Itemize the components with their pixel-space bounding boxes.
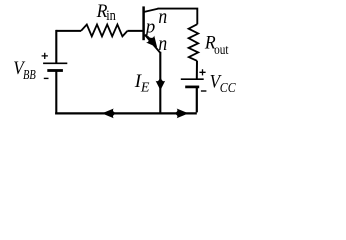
plus sign V_BB	[42, 53, 48, 59]
svg-text:p: p	[144, 16, 156, 37]
svg-text:E: E	[140, 80, 150, 95]
wire: bottom wire	[55, 112, 160, 114]
wire: left vertical from corner to battery	[55, 30, 57, 63]
svg-text:out: out	[214, 43, 228, 58]
resistor R_in	[81, 25, 127, 37]
battery V_CC long plate	[181, 78, 204, 80]
resistor R_out	[189, 24, 199, 61]
transistor collector lead	[144, 9, 158, 12]
wire: V_CC to bottom right corner	[160, 87, 197, 114]
plus sign V_CC	[199, 69, 205, 75]
minus sign V_BB	[44, 77, 49, 79]
battery V_CC short plate	[185, 86, 199, 89]
wire: resistor to transistor base	[127, 30, 143, 32]
svg-text:CC: CC	[220, 81, 236, 96]
svg-text:n: n	[158, 7, 167, 28]
transistor emitter arrowhead	[144, 33, 162, 51]
transistor Q1 base bar	[142, 6, 145, 40]
transistor emitter lead	[145, 35, 160, 53]
battery V_BB short plate	[47, 69, 63, 72]
wire: battery V_BB to bottom left corner	[55, 71, 57, 114]
wire: emitter vertical	[159, 52, 161, 115]
arrowhead bottom-right (pointing right)	[173, 109, 188, 119]
battery V_BB long plate	[43, 62, 67, 64]
svg-text:in: in	[106, 8, 116, 24]
wire: R_out to V_CC battery	[196, 61, 198, 79]
minus sign V_CC	[201, 90, 207, 92]
arrowhead bottom-left (pointing left)	[102, 109, 117, 119]
wire: collector top wire to R_out corner	[158, 9, 198, 25]
svg-text:BB: BB	[23, 68, 36, 83]
wire: base wire from left corner to resistor	[56, 30, 81, 32]
current arrow I_E on emitter wire	[156, 76, 166, 90]
